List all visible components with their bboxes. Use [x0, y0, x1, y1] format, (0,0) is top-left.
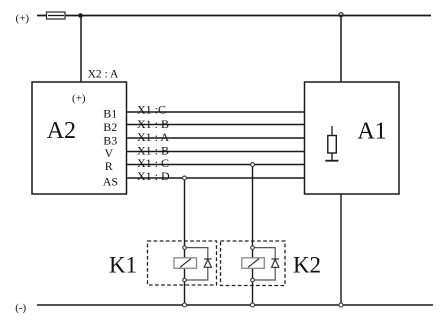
svg-text:B1: B1: [103, 107, 117, 121]
svg-text:V: V: [105, 146, 114, 160]
svg-text:(-): (-): [15, 302, 26, 314]
svg-text:A1: A1: [357, 119, 386, 145]
svg-text:(+): (+): [16, 13, 30, 25]
svg-text:R: R: [105, 159, 113, 173]
svg-text:K2: K2: [293, 253, 321, 278]
svg-text:X2 : A: X2 : A: [88, 68, 119, 80]
svg-text:A2: A2: [47, 118, 76, 144]
svg-text:X1 : A: X1 : A: [137, 130, 169, 144]
svg-text:B2: B2: [103, 120, 117, 134]
svg-text:X1 :C: X1 :C: [137, 102, 166, 116]
svg-text:K1: K1: [109, 253, 137, 278]
svg-text:X1 : D: X1 : D: [137, 169, 170, 183]
svg-text:AS: AS: [103, 175, 118, 189]
svg-text:(+): (+): [72, 92, 86, 104]
